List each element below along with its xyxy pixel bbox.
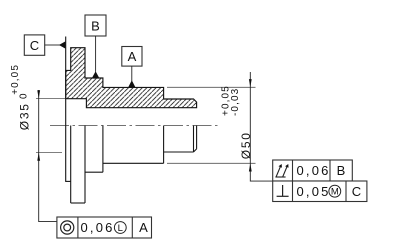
datum C leader	[45, 44, 60, 46]
mid cylinder bottom	[85, 171, 103, 173]
dimension D35: top extension line	[36, 98, 65, 100]
svg-text:A: A	[139, 220, 148, 235]
dimension D35: bottom arrow	[37, 153, 40, 161]
flange bottom	[71, 202, 85, 204]
svg-text:Ø35: Ø35	[17, 102, 31, 130]
datum B triangle	[92, 71, 99, 78]
flange right face edge (lower half)	[84, 126, 86, 204]
chamfer edge circle line (lower half)	[193, 126, 195, 153]
feature control frame: perpendicularity 0,05 (M) C	[273, 181, 367, 202]
total runout tolerance value 0,06	[297, 163, 331, 178]
section body (hatched upper half of flanged bushing)	[66, 48, 197, 108]
dimension D50: tolerance +0,05 / -0,03	[220, 85, 241, 116]
step edge at x=102.9 (lower half)	[102, 126, 104, 173]
concentricity tolerance value 0,06	[81, 220, 115, 235]
svg-text:A: A	[128, 49, 137, 64]
concentricity symbol	[61, 221, 74, 234]
svg-text:M: M	[331, 187, 339, 198]
left face line with extension for datum C	[65, 37, 67, 182]
svg-text:C: C	[352, 184, 361, 199]
svg-text:0: 0	[18, 92, 29, 99]
datum C label box	[24, 35, 44, 55]
centerline	[50, 125, 221, 127]
dimension D50: bottom extension line	[167, 162, 256, 164]
svg-text:C: C	[30, 38, 39, 53]
dimension D50: bottom arrow	[249, 163, 252, 171]
feature control frame: concentricity 0,06 (L) A	[57, 217, 152, 238]
svg-text:+0,05: +0,05	[10, 64, 21, 95]
feature control frame: total runout 0,06 B	[273, 160, 353, 181]
perpendicularity symbol	[277, 185, 289, 196]
dimension D50: top extension line	[167, 86, 256, 88]
L modifier circle	[114, 222, 126, 235]
dimension D35: bottom extension line	[36, 152, 62, 154]
spigot bottom	[164, 151, 194, 153]
svg-text:-0,03: -0,03	[230, 88, 241, 116]
datum reference B cell text	[337, 163, 346, 178]
svg-text:Ø50: Ø50	[239, 131, 253, 159]
perpendicularity tolerance value 0,05	[297, 184, 331, 199]
dimension D50: dimension line + leader to frames	[250, 72, 272, 181]
svg-text:0,05: 0,05	[297, 184, 331, 199]
lower half outline: boss left face handled above; boss bottom	[65, 180, 71, 182]
datum A leader	[131, 66, 133, 81]
right face (lower half)	[196, 126, 198, 149]
dimension D35: top arrow	[37, 90, 40, 98]
svg-text:L: L	[118, 223, 123, 234]
datum B label box	[85, 15, 106, 36]
dimension D35: dimension line + leader to frame	[39, 90, 57, 222]
chamfer slant (lower half)	[194, 149, 197, 152]
dimension D50: top arrow	[249, 79, 252, 87]
datum reference C cell text	[352, 184, 361, 199]
dimension D50: value text	[239, 131, 253, 159]
svg-text:B: B	[91, 19, 100, 34]
datum A label box	[122, 47, 142, 67]
M modifier circle	[329, 185, 341, 197]
shoulder edge at x=163.6 (lower half)	[163, 126, 165, 164]
svg-text:B: B	[337, 163, 346, 178]
dimension D35: value text	[17, 102, 31, 130]
svg-text:0,06: 0,06	[297, 163, 331, 178]
dimension D35: tolerance +0,05 / 0	[10, 64, 30, 99]
flange left face edge (lower half)	[70, 126, 72, 204]
svg-text:0,06: 0,06	[81, 220, 115, 235]
datum A triangle	[128, 80, 135, 87]
datum B leader	[95, 36, 97, 72]
datum reference A cell text	[139, 220, 148, 235]
total runout symbol	[275, 164, 288, 177]
D50 cylinder bottom	[103, 162, 164, 164]
datum C triangle	[59, 41, 66, 48]
